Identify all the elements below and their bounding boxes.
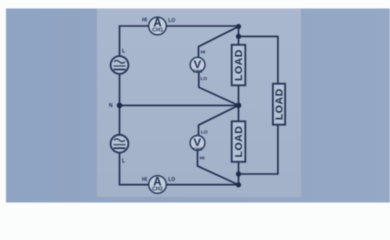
node N [117,103,123,109]
ammeter CH2 [142,176,175,194]
node junction middle [236,103,242,109]
node junction load branch top [236,34,241,39]
wire right column segment bottom [238,162,240,185]
wire right column segment middle [238,85,240,121]
wire voltmeter1 LO lead [199,72,239,105]
svg-text:CH2: CH2 [152,187,163,193]
wire neutral N horizontal [120,104,239,106]
svg-text:CH2: CH2 [193,147,203,153]
wire branch to outer load top [239,36,278,83]
wire top horizontal L line [120,25,239,27]
node junction bottom right [236,182,241,187]
wire voltmeter1 HI lead [199,27,239,58]
voltmeter CH2 [190,129,208,161]
svg-text:LOAD: LOAD [274,88,286,120]
load R3 (outer) [273,84,286,125]
svg-text:LO: LO [168,18,175,24]
wire voltmeter2 LO lead [199,105,239,135]
voltmeter CH1 [190,49,207,82]
node junction top right [236,24,241,29]
svg-text:HI: HI [142,18,148,24]
svg-text:N: N [109,103,113,109]
svg-text:LO: LO [200,76,207,82]
source L2 (bottom AC source) [111,135,129,165]
wire left vertical [119,26,121,185]
svg-text:HI: HI [142,177,148,183]
svg-text:HI: HI [200,155,205,161]
ammeter CH1 [142,17,175,35]
wire voltmeter2 HI lead [198,150,239,185]
svg-text:HI: HI [201,49,206,55]
source L1 (top AC source) [111,49,129,74]
load R1 (upper right) [232,45,246,86]
svg-text:CH1: CH1 [152,28,163,34]
svg-text:LOAD: LOAD [233,49,245,81]
wire bottom horizontal [120,184,239,186]
wire right column segment top [238,27,240,45]
load R2 (lower right) [232,121,246,162]
svg-text:LOAD: LOAD [233,126,245,158]
node junction load branch bottom [236,171,241,176]
svg-text:CH1: CH1 [193,68,203,74]
wire branch to outer load bottom [239,125,278,174]
svg-text:LO: LO [201,129,208,135]
svg-text:LO: LO [168,177,175,183]
